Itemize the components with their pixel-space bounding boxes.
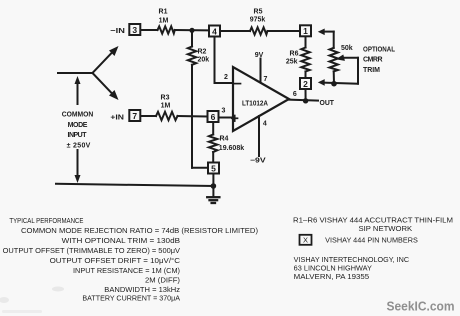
label R5 975k: [250, 9, 266, 24]
svg-text:1M: 1M: [159, 18, 169, 25]
label -9V: [250, 158, 266, 165]
wire box7 to R3: [141, 115, 156, 117]
op-amp U1 LT1012A: [233, 67, 289, 131]
common mode dimension arrow: [75, 76, 81, 183]
svg-text:−IN: −IN: [110, 26, 125, 35]
resistor R1: [158, 26, 175, 33]
resistor R5: [250, 27, 267, 34]
resistor R6 vertical: [301, 37, 309, 78]
wire box5 to ground rail: [212, 174, 214, 186]
svg-text:6: 6: [293, 91, 297, 98]
svg-text:X: X: [303, 236, 308, 245]
wire common-mode input stub: [58, 72, 93, 74]
svg-text:3: 3: [132, 25, 137, 35]
pot wiper arrow: [336, 55, 358, 84]
svg-text:TYPICAL PERFORMANCE: TYPICAL PERFORMANCE: [9, 218, 83, 225]
wire box6 to op-amp pin3: [219, 117, 233, 119]
label COMMON MODE INPUT ±250V: [60, 105, 96, 149]
svg-text:OUT: OUT: [320, 98, 335, 107]
resistor R3: [156, 112, 178, 120]
svg-text:OUTPUT OFFSET (TRIMMABLE TO ZE: OUTPUT OFFSET (TRIMMABLE TO ZERO) = 500μ…: [3, 248, 181, 255]
svg-text:MALVERN, PA 19355: MALVERN, PA 19355: [294, 274, 370, 281]
wire R5 to box1: [268, 30, 299, 32]
svg-text:COMMON: COMMON: [62, 112, 94, 119]
svg-text:OPTIONAL: OPTIONAL: [363, 46, 396, 53]
svg-text:COMMON MODE REJECTION RATIO =: COMMON MODE REJECTION RATIO = 74dB (RESI…: [21, 228, 258, 235]
pin 3 terminal box: [129, 24, 140, 35]
svg-text:7: 7: [264, 76, 268, 83]
node +IN label: [110, 113, 124, 122]
op-amp minus input mark: [234, 83, 240, 85]
svg-text:50k: 50k: [341, 45, 353, 52]
svg-text:2: 2: [224, 74, 228, 81]
svg-text:WITH OPTIONAL TRIM = 130dB: WITH OPTIONAL TRIM = 130dB: [62, 238, 181, 245]
svg-text:OUTPUT OFFSET DRIFT = 10μV/°C: OUTPUT OFFSET DRIFT = 10μV/°C: [50, 257, 180, 265]
pin number 2: [224, 74, 228, 81]
op-amp plus input mark: [232, 116, 238, 122]
svg-text:R1: R1: [159, 9, 168, 16]
svg-text:20k: 20k: [198, 57, 210, 64]
typical performance text block: [3, 218, 258, 303]
svg-text:1M: 1M: [161, 103, 171, 110]
svg-text:1: 1: [303, 26, 308, 36]
resistor R4 vertical: [209, 123, 217, 163]
svg-text:3: 3: [222, 108, 226, 115]
pin number 4: [263, 121, 267, 128]
pin 5 terminal box: [208, 163, 219, 174]
label OPTIONAL CMRR TRIM: [363, 46, 396, 74]
svg-text:TRIM: TRIM: [363, 67, 380, 74]
wire fork arrow to +IN: [93, 73, 119, 100]
wire box3 to R1: [141, 29, 158, 31]
svg-text:R2: R2: [198, 49, 207, 56]
node -IN label: [110, 26, 125, 35]
pin 6 terminal box: [208, 111, 219, 122]
svg-text:± 250V: ± 250V: [67, 142, 91, 149]
svg-text:2: 2: [303, 79, 308, 89]
wire fork arrow to -IN: [93, 46, 119, 73]
ground rail: [56, 184, 213, 186]
wire R3 to box6: [178, 115, 207, 118]
svg-text:975k: 975k: [250, 17, 266, 24]
svg-text:SeekIC.com: SeekIC.com: [387, 299, 455, 314]
svg-text:19.608k: 19.608k: [219, 145, 244, 152]
svg-text:VISHAY INTERTECHNOLOGY, INC: VISHAY INTERTECHNOLOGY, INC: [294, 257, 409, 264]
pin 1 terminal box: [300, 25, 311, 36]
wire pot bottom to box2 arrow: [318, 79, 358, 86]
svg-text:R6: R6: [290, 51, 299, 58]
svg-text:BANDWIDTH = 13kHz: BANDWIDTH = 13kHz: [104, 287, 180, 294]
node output junction: [303, 98, 308, 103]
vishay note text block: [293, 218, 453, 245]
svg-text:2M (DIFF): 2M (DIFF): [145, 278, 180, 285]
label R1 1M: [159, 9, 169, 25]
watermark SeekIC.com: [387, 299, 455, 314]
pin number 7: [264, 76, 268, 83]
wire box4 to R5: [221, 30, 251, 32]
svg-text:R1–R6 VISHAY 444 ACCUTRACT THI: R1–R6 VISHAY 444 ACCUTRACT THIN-FILM: [293, 218, 453, 225]
svg-text:INPUT: INPUT: [68, 132, 88, 139]
svg-text:7: 7: [132, 111, 137, 121]
vishay address block: [294, 257, 409, 281]
svg-text:MODE: MODE: [68, 122, 88, 129]
pin 4 terminal box: [209, 26, 220, 37]
svg-text:VISHAY 444 PIN NUMBERS: VISHAY 444 PIN NUMBERS: [325, 238, 418, 245]
svg-text:4: 4: [263, 121, 267, 128]
label 50k: [341, 45, 353, 52]
wire op-amp pin7 supply: [260, 59, 262, 83]
resistor R2 vertical: [188, 30, 196, 168]
svg-text:BATTERY CURRENT = 370μA: BATTERY CURRENT = 370μA: [82, 296, 180, 303]
pin 7 terminal box: [129, 110, 140, 121]
scan smudges: [0, 287, 64, 314]
svg-text:R5: R5: [254, 9, 263, 16]
wire op-amp pin4 supply: [258, 116, 260, 156]
pin 2 terminal box: [300, 78, 311, 89]
wire op-amp output: [289, 100, 318, 101]
svg-text:4: 4: [212, 26, 217, 36]
potentiometer 50k: [330, 48, 338, 84]
wire R2 bottom to box5: [192, 167, 207, 169]
svg-text:−9V: −9V: [250, 158, 266, 165]
svg-text:LT1012A: LT1012A: [242, 101, 268, 108]
wire R1 to box4: [175, 29, 209, 31]
svg-text:6: 6: [211, 112, 216, 122]
node junction -IN/R2: [189, 28, 194, 33]
label R2 20k: [198, 49, 210, 64]
pin number 3: [222, 108, 226, 115]
wire pot top to box1 arrow: [318, 29, 334, 48]
label R3 1M: [161, 95, 171, 110]
svg-text:9V: 9V: [255, 52, 264, 59]
label 9V: [255, 52, 264, 59]
wire box2 to output node: [305, 89, 307, 101]
svg-text:63 LINCOLN HIGHWAY: 63 LINCOLN HIGHWAY: [294, 266, 373, 273]
svg-text:+IN: +IN: [110, 113, 124, 122]
node junction pot bottom: [331, 81, 337, 87]
svg-text:CMRR: CMRR: [363, 57, 383, 64]
pin number 6: [293, 91, 297, 98]
pin number legend box X: [300, 235, 312, 245]
svg-text:25k: 25k: [286, 59, 298, 66]
label OUT: [320, 98, 335, 107]
label R4 19.608k: [219, 136, 244, 153]
label R6 25k: [286, 51, 299, 66]
wire box4 to op-amp pin2: [215, 37, 234, 84]
node junction ground: [211, 183, 217, 189]
svg-text:R4: R4: [220, 136, 229, 143]
svg-text:5: 5: [211, 163, 216, 173]
ground: [207, 186, 219, 203]
svg-text:SIP NETWORK: SIP NETWORK: [359, 226, 413, 233]
svg-text:INPUT RESISTANCE = 1M (CM): INPUT RESISTANCE = 1M (CM): [73, 268, 180, 275]
svg-text:R3: R3: [161, 95, 170, 102]
